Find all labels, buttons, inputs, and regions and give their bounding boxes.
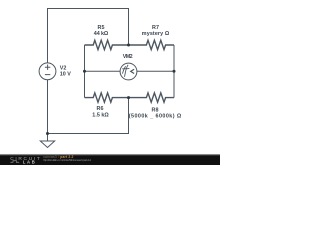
resistor R6: [85, 93, 129, 102]
node A: [127, 44, 130, 47]
resistor R7: [129, 40, 175, 49]
logo squarewave: [10, 161, 19, 163]
node B: [127, 96, 130, 99]
svg-text:LAB: LAB: [23, 159, 37, 164]
svg-text:R5: R5: [98, 25, 105, 31]
svg-text:(5000k _ 6000k) Ω: (5000k _ 6000k) Ω: [129, 114, 182, 120]
svg-text:VM2: VM2: [123, 54, 133, 60]
svg-text:R8: R8: [152, 107, 159, 113]
svg-text:R7: R7: [152, 25, 159, 31]
footer bar: [0, 154, 220, 156]
svg-text:http://circuitlab.com/c/e9w59b: http://circuitlab.com/c/e9w59b/canvas3-p…: [43, 158, 91, 162]
wire right bus: [173, 45, 175, 98]
svg-text:1.5 kΩ: 1.5 kΩ: [92, 112, 109, 118]
wire voltmeter left: [85, 70, 121, 72]
node bottom: [46, 132, 49, 135]
node VM right: [173, 70, 176, 73]
resistor R5: [85, 40, 129, 49]
svg-text:44 kΩ: 44 kΩ: [94, 31, 109, 37]
node VM left: [83, 70, 86, 73]
wire bottom return: [48, 98, 129, 134]
svg-text:V2: V2: [60, 66, 67, 72]
voltage source V2: [39, 63, 56, 80]
ground: [40, 141, 54, 148]
svg-text:mystery Ω: mystery Ω: [142, 31, 170, 37]
wire V2 to ground: [47, 80, 49, 141]
voltmeter VM2: [120, 63, 137, 80]
wire voltmeter right: [137, 70, 174, 72]
wire left bus: [84, 45, 86, 98]
wire top from V2 to node A column: [48, 9, 129, 64]
svg-text:10 V: 10 V: [60, 72, 71, 78]
svg-text:R6: R6: [97, 106, 104, 112]
resistor R8: [129, 93, 175, 102]
